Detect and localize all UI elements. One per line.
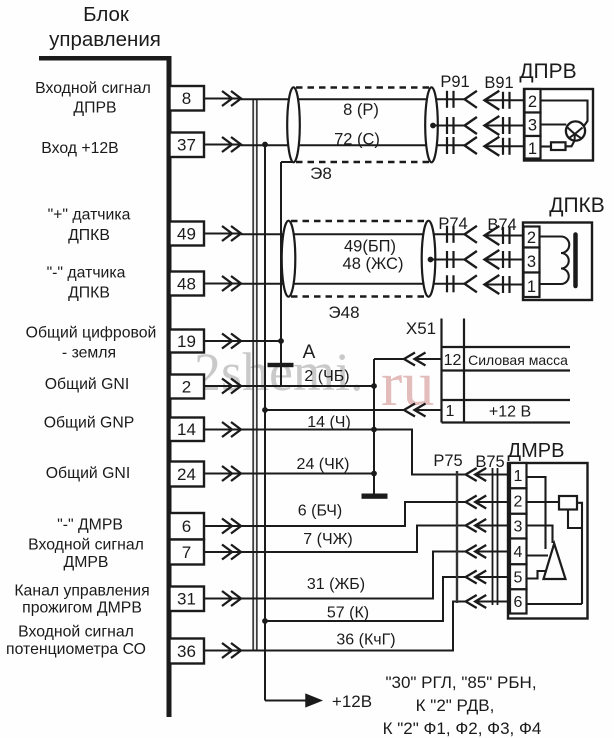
svg-text:49: 49	[177, 224, 196, 243]
svg-text:2 (ЧБ): 2 (ЧБ)	[304, 368, 349, 385]
svg-text:5: 5	[514, 569, 523, 586]
sensor DPKV body	[523, 223, 592, 301]
hall sensor element circle	[566, 121, 585, 140]
svg-text:- земля: - земля	[62, 345, 116, 362]
svg-text:Входной сигнал: Входной сигнал	[18, 624, 134, 641]
svg-text:X51: X51	[406, 319, 436, 338]
DMRV pin4 internal wire	[527, 554, 549, 556]
junction shield to pin3 row	[430, 123, 436, 129]
svg-text:P91: P91	[440, 73, 469, 91]
DMRV pin 4 box	[510, 539, 527, 565]
svg-text:24: 24	[177, 465, 196, 484]
junction +12V to X51 pin1	[262, 407, 268, 413]
connector P74 bars	[446, 226, 448, 243]
wire from pin 48	[204, 283, 241, 285]
svg-text:Блок: Блок	[83, 3, 130, 26]
wire from pin 8	[204, 98, 241, 100]
svg-text:3: 3	[527, 253, 536, 271]
node A to wire 2 vertical	[280, 367, 282, 386]
arrow	[222, 334, 232, 349]
DPRV pin 3 box	[525, 113, 541, 137]
svg-text:ДПКВ: ДПКВ	[68, 227, 110, 244]
DPRV pin2 internal wire	[541, 101, 588, 128]
svg-text:прожигом ДМРВ: прожигом ДМРВ	[22, 600, 142, 617]
shield Э8 dashed outline	[296, 86, 429, 88]
svg-text:7 (ЧЖ): 7 (ЧЖ)	[303, 531, 352, 548]
svg-text:ДМРВ: ДМРВ	[508, 440, 565, 462]
svg-text:2: 2	[527, 229, 536, 247]
svg-text:1: 1	[514, 468, 523, 485]
svg-text:3: 3	[514, 519, 523, 536]
svg-text:8: 8	[182, 89, 191, 108]
svg-text:48: 48	[177, 274, 196, 293]
svg-text:+12 В: +12 В	[489, 404, 531, 421]
DPKV pin 3 box	[524, 248, 540, 273]
svg-text:72 (С): 72 (С)	[334, 131, 380, 149]
wire from pin 31	[204, 598, 241, 600]
DMRV pin 2 box	[510, 488, 527, 514]
coil core bar	[573, 235, 578, 287]
arrow	[222, 276, 232, 291]
DMRV pin 6 box	[510, 589, 527, 613]
svg-text:24 (ЧК): 24 (ЧК)	[297, 456, 350, 473]
wire from pin 49	[204, 233, 241, 235]
connector B74 bars	[502, 227, 504, 244]
connector P75 line	[456, 471, 458, 603]
arrow	[222, 379, 232, 394]
wire from pin 19	[204, 340, 241, 342]
wire 57 (K) +12V to DMRV pin5	[265, 577, 466, 621]
svg-text:B91: B91	[484, 74, 513, 92]
svg-text:4: 4	[514, 544, 523, 561]
junction shield Э48 to pin3 row	[428, 257, 434, 263]
ECU pin 8 box	[170, 86, 205, 111]
wire stubs to DPKV pins	[485, 235, 524, 237]
DMRV pin3 internal wire	[527, 526, 553, 544]
svg-text:Входной сигнал: Входной сигнал	[28, 537, 144, 554]
svg-text:1: 1	[446, 403, 455, 420]
arrow	[222, 91, 232, 106]
DMRV pin 3 box	[510, 514, 527, 539]
svg-text:"30" РГЛ, "85" РБН,: "30" РГЛ, "85" РБН,	[385, 673, 536, 692]
svg-text:"+" датчика: "+" датчика	[48, 207, 131, 224]
DPRV pin3 internal wire	[541, 123, 567, 125]
svg-text:Силовая масса: Силовая масса	[468, 352, 568, 368]
connector B91 arrows	[485, 91, 500, 110]
connector P74 arrows	[465, 226, 477, 243]
shield Э8 drain wire to node A	[281, 161, 292, 163]
arrow	[222, 591, 232, 606]
svg-text:B75: B75	[475, 453, 504, 471]
svg-text:А: А	[303, 342, 316, 363]
sensor DPRV body	[524, 89, 593, 161]
DPRV pin1 internal wire	[541, 145, 552, 147]
ECU pin 7 box	[170, 540, 205, 565]
svg-text:6: 6	[182, 517, 191, 536]
svg-text:57 (К): 57 (К)	[327, 605, 369, 622]
svg-text:B74: B74	[487, 216, 516, 234]
svg-text:К "2" РДВ,: К "2" РДВ,	[416, 696, 495, 715]
shield Э48 left ellipse	[282, 221, 296, 297]
svg-text:Э48: Э48	[328, 303, 359, 322]
ECU pin 24 box	[170, 462, 205, 487]
svg-text:14: 14	[177, 420, 196, 439]
arrow	[222, 466, 232, 481]
wire 49 (BP) from pin 49	[241, 233, 465, 235]
svg-text:ДМРВ: ДМРВ	[64, 554, 109, 571]
svg-text:19: 19	[177, 332, 196, 351]
arrow	[222, 545, 232, 560]
wire from pin 7	[204, 551, 241, 553]
junction w2	[371, 383, 377, 389]
DMRV pin 1 box	[510, 463, 527, 488]
svg-text:6 (БЧ): 6 (БЧ)	[298, 503, 342, 520]
junction w24	[371, 471, 377, 477]
svg-text:Э8: Э8	[310, 164, 332, 183]
wire 31 (ZhB) to DMRV pin4	[204, 552, 466, 599]
arrow	[222, 519, 232, 534]
svg-text:Общий GNI: Общий GNI	[46, 465, 130, 482]
+12V vertical wire	[264, 145, 266, 701]
arrow	[222, 137, 232, 152]
connector P91 arrows	[465, 91, 477, 108]
svg-text:1: 1	[527, 278, 536, 296]
DPKV pin 2 box	[524, 227, 540, 248]
X51 row 1 lines	[442, 399, 571, 401]
wire 2 (ChB) to ground net	[204, 385, 374, 387]
svg-text:Канал управления: Канал управления	[14, 583, 149, 600]
svg-text:ДПРВ: ДПРВ	[519, 60, 576, 83]
shield Э8 left ellipse	[287, 87, 300, 162]
arrow to X51-12	[404, 353, 415, 366]
svg-text:3: 3	[528, 117, 537, 135]
wire from pin 2	[204, 385, 241, 387]
wire 8 (P) from pin 8 to connector P91	[241, 98, 465, 100]
svg-text:31 (ЖБ): 31 (ЖБ)	[307, 576, 365, 593]
DPRV pin 1 box	[525, 136, 541, 159]
control unit boundary line	[39, 56, 172, 61]
wire 7 (ChZh) to DMRV pin3	[204, 526, 466, 553]
shield Э48 right ellipse	[422, 221, 436, 297]
resistor in DPRV	[551, 142, 566, 150]
DPKV pin 1 box	[524, 273, 540, 298]
svg-text:48 (ЖС): 48 (ЖС)	[343, 255, 404, 273]
wire 14 (Ch) to DMRV pin1	[204, 430, 466, 475]
shield Э48 dashed outline	[291, 220, 427, 222]
ground symbol bar	[362, 494, 388, 499]
wire from pin 37	[204, 144, 241, 146]
svg-text:36: 36	[177, 642, 196, 661]
svg-text:P74: P74	[438, 215, 467, 233]
arrow	[222, 422, 232, 437]
wire from pin 24	[204, 473, 241, 475]
wire stubs to DPRV pins	[485, 99, 525, 101]
svg-text:2: 2	[514, 494, 523, 511]
amplifier triangle	[544, 544, 566, 580]
wire 24 (ChK)	[204, 473, 374, 475]
ECU pin 36 box	[170, 639, 205, 664]
svg-text:"-" ДМРВ: "-" ДМРВ	[57, 517, 123, 534]
wire from pin 36	[204, 650, 241, 652]
DMRV pin6 internal wire	[527, 603, 583, 605]
DPRV pin 2 box	[525, 89, 541, 113]
svg-text:Общий GNI: Общий GNI	[45, 376, 129, 393]
junction wire19-drain	[278, 338, 284, 344]
svg-text:"-" датчика: "-" датчика	[47, 265, 126, 282]
connector P91 bars	[446, 91, 448, 108]
svg-text:49(БП): 49(БП)	[344, 238, 396, 256]
svg-text:ДПРВ: ДПРВ	[73, 100, 116, 117]
ECU pin 6 box	[170, 513, 205, 540]
ECU pin 49 box	[170, 222, 205, 246]
harness bus lines	[252, 99, 254, 651]
svg-text:Вход +12В: Вход +12В	[41, 140, 118, 157]
svg-text:7: 7	[182, 543, 191, 562]
wire to X51 pin 12	[374, 358, 404, 360]
svg-text:Общий GNP: Общий GNP	[44, 415, 135, 432]
ECU pin 31 box	[170, 587, 205, 612]
wire +12V to X51 pin 1	[265, 409, 404, 411]
DMRV pin2 internal wire	[527, 501, 560, 503]
svg-text:управления: управления	[49, 28, 161, 51]
wire 6 (BCh) to DMRV pin2	[204, 502, 466, 526]
DMRV pin5 internal wire	[527, 571, 547, 579]
svg-text:31: 31	[177, 590, 196, 609]
connector B74 arrows	[485, 226, 500, 245]
svg-text:1: 1	[528, 140, 537, 158]
ECU pin 2 box	[170, 375, 205, 399]
DMRV pin 5 box	[510, 564, 527, 589]
wire 48 (ZHS) from pin 48	[241, 283, 465, 285]
svg-text:P75: P75	[433, 452, 462, 470]
svg-text:37: 37	[177, 136, 196, 155]
ECU pin 37 box	[170, 133, 205, 158]
X51 row 12 lines	[442, 346, 571, 348]
arrow +12V	[306, 695, 321, 707]
+12V output wire bottom	[265, 700, 306, 702]
shield Э8 right ellipse	[425, 87, 438, 162]
svg-text:6: 6	[514, 594, 523, 611]
+12V branch junction on pin 37 wire	[262, 142, 268, 148]
arrow	[222, 226, 232, 241]
svg-text:ДПКВ: ДПКВ	[549, 194, 605, 217]
connector B91 bars	[502, 92, 504, 109]
junction w14	[371, 427, 377, 433]
inductor coil in DPKV	[540, 237, 570, 285]
svg-text:К "2" Ф1, Ф2, Ф3, Ф4: К "2" Ф1, Ф2, Ф3, Ф4	[383, 719, 542, 738]
svg-text:2: 2	[528, 93, 537, 111]
connector B75 lines	[492, 468, 494, 605]
wire from pin 14	[204, 429, 241, 431]
node A bus bar	[268, 363, 294, 367]
wire 36 (KchG) to DMRV pin6	[204, 602, 466, 651]
svg-text:Входной сигнал: Входной сигнал	[35, 80, 151, 97]
wire from pin 6	[204, 525, 241, 527]
svg-text:14 (Ч): 14 (Ч)	[307, 414, 351, 431]
ECU pin 48 box	[170, 272, 205, 296]
wire 19 to node A	[204, 340, 281, 342]
sensor DMRV body	[508, 463, 588, 619]
svg-text:36 (КчГ): 36 (КчГ)	[336, 632, 395, 649]
svg-text:потенциометра СО: потенциометра СО	[6, 641, 146, 658]
svg-text:2: 2	[182, 377, 191, 396]
svg-text:Общий цифровой: Общий цифровой	[26, 325, 157, 342]
svg-text:8 (Р): 8 (Р)	[343, 101, 379, 119]
wire 72 (C) from pin 37 to connector P91	[241, 144, 465, 146]
connector arrows to DMRV	[466, 468, 477, 481]
svg-text:ДПКВ: ДПКВ	[68, 285, 110, 302]
ECU pin 19 box	[170, 330, 205, 353]
sensing element resistor	[559, 496, 577, 510]
arrow	[222, 643, 232, 658]
ground net vertical	[373, 359, 375, 494]
ECU pin 14 box	[170, 418, 205, 442]
watermark 2shemi.ru	[194, 342, 434, 419]
X51 connector verticals	[440, 319, 442, 423]
DMRV pin1 internal wire	[527, 477, 546, 549]
svg-text:12: 12	[444, 352, 462, 369]
junction +12V to wire 57	[262, 618, 268, 624]
arrow to X51-1	[404, 404, 415, 417]
svg-text:+12В: +12В	[332, 692, 372, 711]
